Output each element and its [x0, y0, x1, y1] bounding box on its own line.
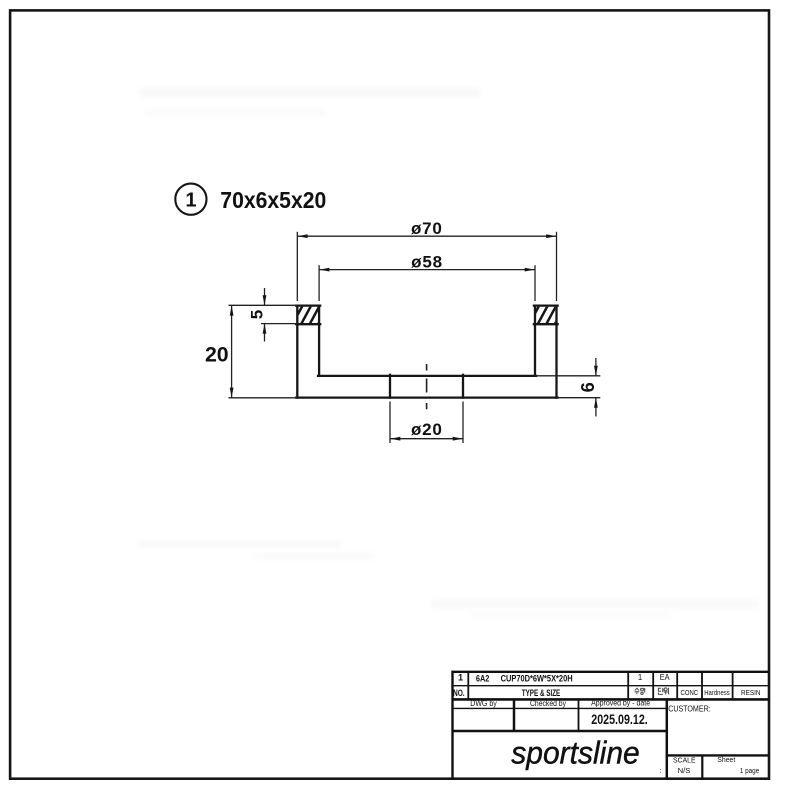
svg-text:CUSTOMER:: CUSTOMER: — [668, 704, 711, 714]
svg-text:sportsline: sportsline — [511, 734, 640, 770]
svg-text:TYPE & SIZE: TYPE & SIZE — [522, 688, 561, 698]
dimension 6 (right bottom thickness) — [535, 358, 600, 417]
svg-text:1: 1 — [458, 672, 463, 682]
svg-text:Hardness: Hardness — [704, 688, 730, 697]
svg-text:RESIN: RESIN — [741, 688, 761, 697]
dimension 5 (left lip) — [229, 288, 298, 342]
svg-text:1 page: 1 page — [740, 766, 760, 775]
svg-text:ø70: ø70 — [411, 219, 443, 238]
svg-text:Checked by: Checked by — [530, 699, 566, 708]
svg-text:N/S: N/S — [678, 766, 691, 775]
title row2: 단위 (unit korean, drawn strokes) — [658, 688, 668, 695]
dimension ⌀70 — [297, 232, 556, 301]
hatch left block — [291, 305, 337, 327]
svg-text:CUP70D*6W*5X*20H: CUP70D*6W*5X*20H — [501, 673, 573, 684]
dimension ⌀20 (bottom hole) — [390, 402, 463, 444]
svg-text:20: 20 — [205, 342, 229, 366]
svg-text:DWG by: DWG by — [470, 699, 497, 708]
svg-text:Sheet: Sheet — [717, 755, 736, 764]
dimension ⌀58 — [319, 265, 535, 301]
svg-text:Approved by - date: Approved by - date — [591, 699, 650, 708]
svg-text:5: 5 — [247, 310, 266, 319]
svg-text:70x6x5x20: 70x6x5x20 — [220, 187, 326, 213]
svg-text:CONC: CONC — [681, 688, 699, 697]
hatch right block — [528, 305, 574, 327]
svg-text::: : — [660, 766, 662, 775]
svg-text:ø20: ø20 — [411, 420, 443, 439]
svg-text:NO.: NO. — [453, 688, 465, 698]
part outline: cup cross-section — [296, 306, 557, 398]
svg-text:1: 1 — [638, 673, 642, 682]
svg-text:SCALE: SCALE — [673, 756, 696, 765]
svg-text:ø58: ø58 — [411, 253, 443, 272]
svg-text:6A2: 6A2 — [476, 673, 490, 684]
svg-text:EA: EA — [660, 673, 671, 682]
svg-text:1: 1 — [185, 189, 196, 211]
balloon callout 1 — [175, 184, 206, 215]
title block frame — [453, 671, 770, 780]
center line (dashed) — [426, 364, 428, 409]
dimension 20 (left overall) — [229, 306, 298, 398]
svg-text:2025.09.12.: 2025.09.12. — [591, 712, 648, 727]
svg-text:6: 6 — [578, 382, 598, 392]
title row2: 수량 (qty korean, drawn strokes) — [635, 688, 645, 695]
